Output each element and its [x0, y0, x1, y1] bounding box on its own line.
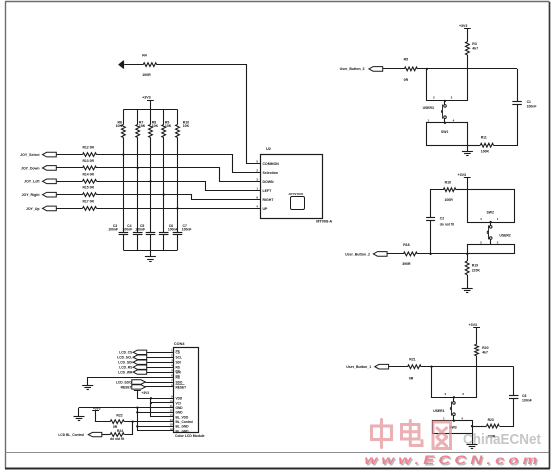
svg-text:+3V3: +3V3: [142, 96, 151, 100]
svg-text:R11: R11: [481, 135, 487, 139]
svg-text:+3V3: +3V3: [93, 407, 101, 411]
wire: [123, 235, 125, 250]
switch body SW2: [468, 190, 515, 223]
svg-text:100nF: 100nF: [522, 399, 532, 403]
resistor R8: [149, 125, 153, 138]
svg-text:VDD: VDD: [176, 397, 183, 401]
svg-text:R17 0R: R17 0R: [82, 199, 94, 203]
capacitor C3: [119, 232, 129, 234]
svg-text:RIGHT: RIGHT: [263, 198, 275, 202]
capacitor C6: [159, 232, 169, 234]
wire: [383, 68, 405, 70]
svg-text:R24: R24: [117, 429, 123, 433]
resistor R16: [443, 188, 456, 192]
svg-text:DOWN: DOWN: [263, 180, 275, 184]
svg-text:100nF: 100nF: [135, 228, 145, 232]
svg-text:100nF: 100nF: [108, 228, 118, 232]
svg-text:C1: C1: [527, 100, 531, 104]
wire: [389, 366, 408, 368]
svg-text:Color LCD Module: Color LCD Module: [175, 434, 205, 438]
capacitor C8: [509, 395, 519, 397]
svg-text:C2: C2: [440, 216, 444, 220]
svg-text:LCD_RS: LCD_RS: [119, 365, 133, 369]
svg-text:+3V3: +3V3: [459, 24, 468, 28]
svg-text:do not fit: do not fit: [440, 223, 455, 227]
wire: [417, 253, 467, 255]
wire: [163, 110, 165, 125]
svg-text:390R: 390R: [402, 262, 411, 266]
capacitor C4: [133, 232, 143, 234]
wire: [157, 65, 261, 164]
svg-text:10K: 10K: [116, 124, 123, 128]
resistor R13: [83, 166, 97, 170]
wire bus: [123, 250, 177, 252]
resistor R17: [83, 207, 97, 211]
svg-text:100nF: 100nF: [122, 228, 132, 232]
junction: [471, 425, 473, 427]
svg-text:JOY_Left: JOY_Left: [24, 180, 40, 184]
wire: [125, 422, 133, 435]
wire: [427, 69, 468, 101]
wire: [472, 426, 487, 428]
switch USER2: [490, 221, 492, 223]
svg-text:BL_GND: BL_GND: [176, 429, 190, 433]
svg-text:JOY_Right: JOY_Right: [22, 193, 41, 197]
junction: [426, 68, 428, 70]
svg-text:CS: CS: [176, 351, 180, 355]
svg-text:GND: GND: [176, 406, 184, 410]
wire: [150, 110, 152, 125]
svg-text:R15 0R: R15 0R: [82, 186, 94, 190]
resistor R6: [122, 125, 126, 138]
resistor R10: [176, 125, 180, 138]
wire: [56, 154, 82, 156]
resistor R24: [110, 433, 124, 437]
wire: [147, 362, 174, 364]
svg-text:LCD_SDI: LCD_SDI: [118, 361, 132, 365]
svg-text:R4: R4: [142, 54, 147, 58]
junction: [137, 167, 139, 169]
wire: [79, 407, 174, 409]
svg-text:R22: R22: [116, 414, 122, 418]
junction: [136, 406, 138, 408]
wire: [430, 221, 432, 254]
svg-text:USER3: USER3: [423, 106, 434, 110]
junction: [429, 253, 431, 255]
wire: [124, 64, 143, 66]
wire: [177, 110, 179, 125]
wire: [145, 382, 174, 384]
svg-text:100R: 100R: [142, 73, 151, 77]
svg-text:WR: WR: [176, 370, 182, 374]
wire: [147, 357, 174, 359]
svg-text:do not fit: do not fit: [110, 437, 125, 441]
resistor R4: [143, 63, 157, 67]
wire: [78, 408, 80, 417]
svg-text:LCD_WR: LCD_WR: [118, 370, 133, 374]
wire: [150, 250, 152, 257]
switch body SW3: [433, 421, 473, 434]
svg-text:LCD_CS: LCD_CS: [119, 351, 133, 355]
svg-text:CON4: CON4: [174, 342, 185, 346]
svg-text:+3V3: +3V3: [142, 391, 150, 395]
junction: [466, 253, 468, 255]
wire: [88, 378, 174, 386]
svg-text:RESET: RESET: [121, 385, 132, 389]
capacitor C2: [426, 217, 435, 219]
connector U2 pin numbers: [261, 155, 323, 219]
wire: [137, 110, 139, 125]
resistor R3: [466, 42, 470, 55]
svg-text:0R: 0R: [409, 376, 414, 380]
svg-text:C8: C8: [522, 394, 526, 398]
watermark line: [6, 452, 549, 454]
junction: [132, 421, 134, 423]
svg-text:+3V3: +3V3: [458, 173, 467, 177]
power +3V3 (LCD VDD): [134, 390, 141, 392]
svg-text:COMMON: COMMON: [263, 162, 280, 166]
wire: [137, 235, 139, 250]
svg-text:JOY_Select: JOY_Select: [20, 153, 40, 157]
capacitor C1: [512, 101, 522, 103]
svg-text:LCD BL_Control: LCD BL_Control: [58, 433, 84, 437]
wire: [177, 235, 179, 250]
wire: [517, 69, 519, 102]
wire: [163, 235, 165, 250]
connector CON4 pin numbers: [174, 348, 199, 433]
switch body SW1: [427, 123, 468, 146]
svg-text:GND: GND: [176, 411, 184, 415]
wire: [96, 411, 111, 422]
junction: [122, 153, 124, 155]
junction: [430, 366, 432, 368]
wire: [123, 110, 125, 125]
svg-text:R23: R23: [488, 418, 494, 422]
watermark char dian: [402, 421, 423, 446]
resistor R5: [404, 67, 417, 71]
resistor R19: [467, 254, 469, 261]
wire: [150, 398, 152, 417]
svg-text:R21: R21: [409, 357, 415, 361]
wire: [431, 190, 444, 218]
wire: [421, 366, 514, 368]
wire: [467, 275, 469, 289]
svg-text:JOY_Up: JOY_Up: [26, 207, 40, 211]
svg-text:R3: R3: [472, 42, 477, 46]
wire: [467, 178, 469, 190]
svg-text:LEFT: LEFT: [263, 189, 273, 193]
wire bus: [123, 109, 177, 111]
capacitor C5: [146, 232, 156, 234]
svg-text:MT008-A: MT008-A: [316, 220, 332, 224]
wire: [97, 208, 261, 210]
svg-text:R14 0R: R14 0R: [82, 172, 94, 176]
resistor R7: [136, 125, 140, 138]
wire: [150, 100, 152, 109]
wire: [472, 434, 474, 444]
resistor R23: [487, 424, 500, 428]
svg-text:+3V3: +3V3: [469, 323, 478, 327]
svg-text:10K: 10K: [183, 124, 190, 128]
resistor R9: [162, 125, 166, 138]
wire: [456, 189, 467, 191]
watermark char wang: [433, 422, 451, 449]
wire: [432, 367, 477, 398]
wire: [147, 372, 174, 374]
svg-text:4k7: 4k7: [482, 351, 488, 355]
wire: [467, 55, 469, 101]
svg-text:10K: 10K: [139, 124, 146, 128]
svg-text:4k7: 4k7: [472, 47, 478, 51]
svg-text:ChinaECNet: ChinaECNet: [463, 431, 541, 448]
wire: [97, 195, 261, 200]
wire: [476, 328, 478, 345]
svg-text:10K: 10K: [152, 124, 159, 128]
svg-text:BL_VDD: BL_VDD: [176, 415, 189, 419]
wire: [124, 421, 174, 423]
resistor R12: [83, 153, 97, 157]
svg-text:User_Button_3: User_Button_3: [340, 67, 365, 71]
wire: [97, 168, 261, 182]
wire: [138, 391, 174, 399]
svg-text:100nF: 100nF: [527, 104, 537, 108]
wire: [150, 235, 152, 250]
power +3V3 (pull-up bank): [147, 100, 154, 102]
junction: [176, 207, 178, 209]
wire: [417, 68, 517, 70]
resistor R22: [110, 420, 124, 424]
border frame: [5, 1, 549, 3]
resistor R14: [83, 179, 97, 183]
junction: [163, 194, 165, 196]
wire: [476, 356, 478, 367]
resistor R18: [403, 252, 417, 256]
svg-text:220K: 220K: [472, 268, 481, 272]
switch USER3: [444, 100, 446, 102]
svg-text:RD: RD: [176, 375, 181, 379]
svg-text:100nF: 100nF: [182, 228, 192, 232]
svg-text:JOY_Down: JOY_Down: [21, 166, 39, 170]
svg-text:SCL: SCL: [176, 356, 182, 360]
svg-text:10K: 10K: [165, 124, 172, 128]
switch body SW2 lower: [468, 245, 515, 254]
svg-text:R13 0R: R13 0R: [82, 159, 94, 163]
svg-text:SDI: SDI: [176, 361, 181, 365]
svg-text:User_Button_2: User_Button_2: [345, 252, 370, 256]
ground (button 3): [462, 151, 473, 153]
wire: [387, 253, 403, 255]
ground (LCD GND): [74, 416, 85, 418]
wire: [56, 167, 82, 169]
wire: [467, 145, 469, 151]
off-page connector (R4 input): [119, 61, 124, 68]
watermark char zhong: [372, 420, 392, 448]
svg-text:R5: R5: [404, 58, 409, 62]
capacitor C7: [173, 232, 183, 234]
resistor R20: [475, 344, 479, 356]
svg-text:UP: UP: [263, 207, 269, 211]
wire: [97, 182, 261, 191]
ground (pull-up bank): [145, 256, 156, 258]
wire: [56, 208, 82, 210]
switch USER1: [453, 396, 455, 398]
svg-text:LCD_SCL: LCD_SCL: [117, 356, 132, 360]
svg-text:USER1: USER1: [433, 409, 444, 413]
svg-text:R20: R20: [482, 346, 488, 350]
wire: [513, 367, 515, 396]
svg-text:U2: U2: [266, 147, 271, 151]
wire: [56, 194, 82, 196]
svg-text:VCI: VCI: [176, 401, 181, 405]
svg-text:R18: R18: [403, 243, 409, 247]
wire: [494, 105, 518, 146]
svg-text:www.ECCN.com: www.ECCN.com: [364, 453, 541, 467]
wire: [102, 434, 110, 436]
wire: [467, 145, 480, 147]
wire: [97, 155, 261, 173]
ground (LCD RD): [82, 385, 93, 387]
svg-text:0R: 0R: [404, 78, 409, 82]
resistor R21: [408, 365, 422, 369]
svg-text:User_Button_1: User_Button_1: [346, 365, 371, 369]
svg-text:R19: R19: [472, 263, 478, 267]
svg-text:BL_GND: BL_GND: [176, 425, 190, 429]
ground (button 1): [467, 444, 478, 446]
wire: [500, 399, 514, 427]
svg-text:RESET: RESET: [176, 385, 187, 389]
svg-text:Selection: Selection: [263, 171, 279, 175]
svg-text:SDO: SDO: [176, 380, 183, 384]
svg-text:R12 0R: R12 0R: [82, 146, 94, 150]
junction: [150, 397, 152, 399]
resistor R15: [83, 193, 97, 197]
ground (button 2): [462, 288, 473, 290]
svg-text:SW1: SW1: [441, 130, 448, 134]
wire: [137, 408, 139, 431]
wire: [56, 181, 82, 183]
svg-text:RS: RS: [176, 365, 180, 369]
svg-text:LCD_SDO: LCD_SDO: [116, 380, 132, 384]
wire: [147, 352, 174, 354]
wire: [145, 386, 174, 388]
svg-text:BL_Control: BL_Control: [176, 420, 193, 424]
wire: [467, 29, 469, 42]
svg-text:JOYSTICK: JOYSTICK: [288, 192, 304, 196]
svg-text:100R: 100R: [444, 198, 453, 202]
svg-text:100R: 100R: [481, 149, 490, 153]
wire: [147, 367, 174, 369]
svg-text:R16: R16: [445, 181, 451, 185]
junction: [149, 180, 151, 182]
svg-text:USER2: USER2: [499, 233, 510, 237]
svg-text:100nF: 100nF: [168, 228, 178, 232]
resistor R11: [480, 143, 493, 147]
svg-text:SW2: SW2: [487, 211, 494, 215]
